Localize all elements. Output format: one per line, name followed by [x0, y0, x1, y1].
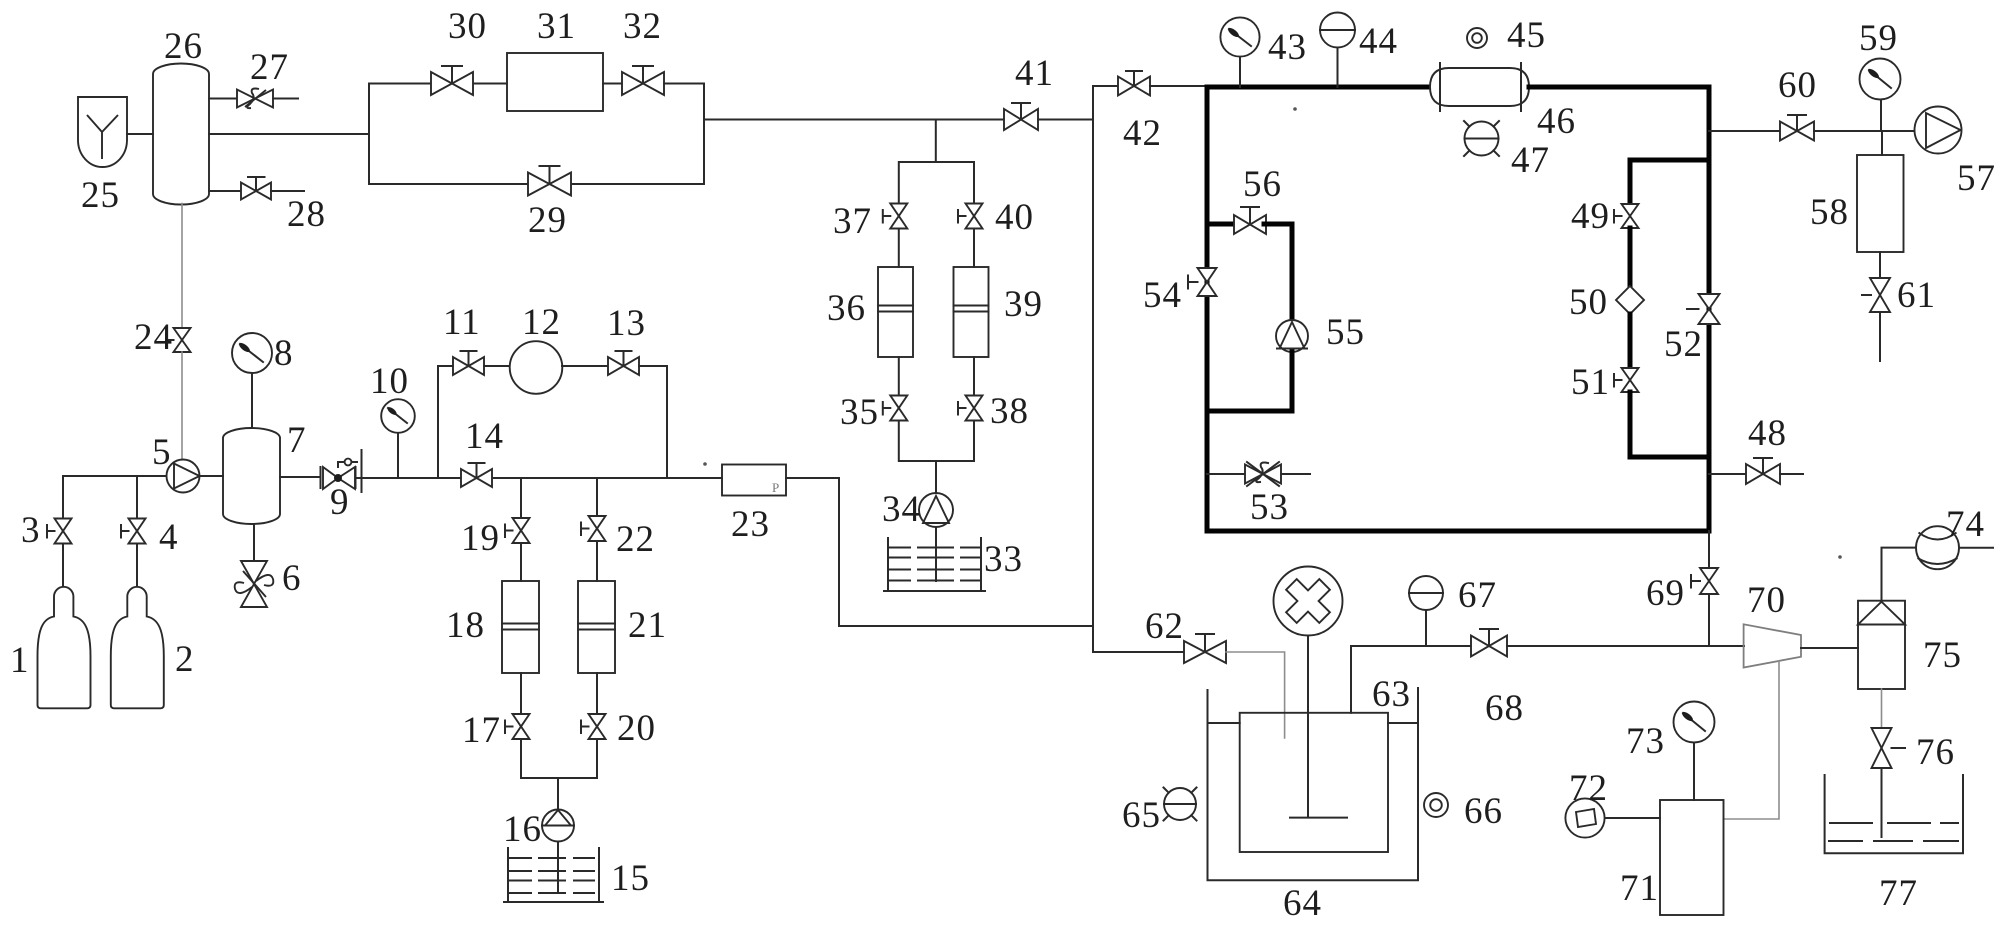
wire top run to valve 41	[704, 119, 1005, 121]
svg-text:74: 74	[1946, 504, 1985, 545]
wire 31 to valve 32	[603, 83, 622, 85]
wire 75 to meter 74	[1882, 548, 1918, 601]
valve 68	[1471, 629, 1744, 657]
thick loop left riser	[1205, 87, 1210, 531]
pressure gauge 8	[232, 333, 272, 373]
valve 51	[1614, 368, 1639, 392]
pressure gauge 73	[1674, 702, 1715, 743]
wire pump 34 into tank 33	[935, 527, 937, 581]
svg-text:52: 52	[1664, 324, 1703, 365]
wire 70 to separator 75	[1801, 647, 1858, 649]
svg-text:48: 48	[1748, 413, 1787, 454]
svg-text:46: 46	[1537, 101, 1576, 142]
valve 61	[1862, 278, 1890, 312]
svg-text:57: 57	[1957, 158, 1996, 199]
pressure gauge 10	[381, 399, 415, 433]
svg-text:2: 2	[175, 639, 195, 680]
svg-text:11: 11	[443, 302, 481, 343]
wire bypass left riser	[368, 84, 370, 185]
svg-text:70: 70	[1747, 580, 1786, 621]
wire valve 69 to line 68-70	[1708, 594, 1710, 646]
sensor 47	[1464, 121, 1499, 156]
svg-text:37: 37	[833, 201, 872, 242]
wire 26 to valve 28	[209, 190, 241, 192]
wire bypass 11-13 right riser	[639, 366, 667, 478]
valve 38	[958, 396, 983, 421]
adsorber column 39	[954, 267, 989, 357]
gas cylinder 2	[111, 587, 164, 708]
wire riser to valve 62	[1093, 651, 1185, 653]
valve 37	[883, 204, 908, 229]
valve 6	[235, 561, 274, 607]
svg-text:21: 21	[628, 605, 667, 646]
valve 56	[1234, 207, 1266, 234]
adsorber column 18	[502, 581, 539, 673]
svg-text:27: 27	[250, 47, 289, 88]
thermometer 67	[1409, 576, 1443, 610]
filter 23	[722, 465, 786, 496]
separator 75	[1858, 601, 1905, 689]
wire bypass right riser	[664, 84, 704, 185]
svg-text:31: 31	[537, 6, 576, 47]
wire 75 to valve 76	[1881, 689, 1883, 728]
svg-text:16: 16	[503, 809, 542, 850]
svg-text:6: 6	[282, 558, 302, 599]
wire main run 9 to 23	[438, 477, 722, 479]
thick branch 49-51 left riser upper	[1628, 160, 1633, 204]
wire column 39 to valve 38	[973, 357, 975, 396]
valve 14	[461, 463, 492, 487]
svg-text:32: 32	[623, 6, 662, 47]
wire valve 20 to pump 16	[558, 739, 597, 778]
ball valve 9	[321, 450, 439, 492]
svg-text:56: 56	[1243, 164, 1282, 205]
sensor 66	[1424, 793, 1448, 817]
wire down to pump 16	[557, 778, 559, 810]
valve 24	[166, 328, 191, 352]
circulation pump 55	[1276, 320, 1308, 352]
waste tank 77	[1825, 775, 1963, 853]
svg-text:P: P	[772, 480, 779, 495]
svg-text:59: 59	[1859, 18, 1898, 59]
adsorber column 36	[878, 267, 913, 357]
thick loop bottom run	[1207, 529, 1709, 534]
stray dot	[1293, 107, 1297, 111]
svg-text:60: 60	[1778, 65, 1817, 106]
svg-text:61: 61	[1897, 275, 1936, 316]
wire 42 stub	[1093, 85, 1118, 87]
wire bypass top run	[369, 83, 507, 85]
svg-text:24: 24	[134, 317, 173, 358]
valve 53	[1245, 462, 1310, 486]
valve 32	[622, 66, 664, 95]
valve 54	[1188, 268, 1217, 296]
thick branch 49-51 bottom	[1630, 392, 1709, 457]
wire junction down to valve 22	[596, 478, 598, 516]
thick wire 50 to 51	[1628, 314, 1633, 368]
svg-text:43: 43	[1268, 27, 1307, 68]
svg-text:54: 54	[1143, 275, 1182, 316]
thick branch 56 to pump 55	[1264, 224, 1292, 321]
svg-text:15: 15	[611, 858, 650, 899]
wire pump 5 to vessel 7	[200, 475, 224, 477]
valve 22	[581, 516, 606, 541]
svg-text:71: 71	[1620, 868, 1659, 909]
wire 25-26	[127, 133, 153, 135]
svg-text:4: 4	[159, 517, 179, 558]
rotameter 12	[510, 341, 563, 394]
svg-text:8: 8	[274, 333, 294, 374]
sensor 72	[1565, 798, 1660, 837]
wire valve 17 to pump 16	[521, 739, 558, 778]
svg-text:66: 66	[1464, 791, 1503, 832]
wire pump 16 into tank 15	[557, 842, 559, 894]
vacuum pump 16	[542, 810, 574, 842]
valve 49	[1614, 204, 1639, 228]
wire column 21 to valve 20	[596, 673, 598, 714]
svg-text:64: 64	[1283, 883, 1322, 924]
vessel 7	[223, 428, 280, 524]
stray dot b	[1838, 555, 1842, 559]
valve 27	[237, 89, 298, 109]
svg-text:34: 34	[882, 489, 921, 530]
wire junction down to valve 19	[520, 478, 522, 518]
valve 3	[47, 519, 72, 544]
svg-text:72: 72	[1569, 768, 1608, 809]
svg-text:5: 5	[152, 432, 172, 473]
wire junction to valve 4	[136, 476, 138, 518]
wire gauge 43 stem	[1239, 57, 1241, 87]
valve 41	[1004, 103, 1093, 130]
wire left feed header	[63, 476, 167, 531]
wire 24 to pump 5	[181, 352, 183, 461]
svg-text:36: 36	[827, 288, 866, 329]
pressure gauge 43	[1220, 17, 1259, 56]
stirrer paddle	[1290, 817, 1347, 819]
svg-text:69: 69	[1646, 573, 1685, 614]
svg-text:45: 45	[1507, 15, 1546, 56]
wire vessel 7 to valve 6	[253, 524, 255, 562]
svg-text:38: 38	[990, 391, 1029, 432]
svg-text:55: 55	[1326, 312, 1365, 353]
thick wire 49 to 50	[1628, 228, 1633, 287]
wire valve 53 stub	[1207, 473, 1245, 475]
svg-text:7: 7	[287, 420, 307, 461]
valve 52	[1687, 294, 1720, 324]
water bath 64	[1208, 688, 1419, 880]
svg-text:40: 40	[995, 197, 1034, 238]
valve 76	[1872, 728, 1906, 768]
wire reactor line to valve 68	[1351, 645, 1471, 647]
svg-text:19: 19	[461, 518, 500, 559]
svg-text:30: 30	[448, 6, 487, 47]
valve 29	[528, 166, 571, 196]
heater box 31	[507, 53, 603, 111]
wire gauge 8 stem	[251, 373, 253, 428]
svg-text:51: 51	[1571, 362, 1610, 403]
waste tank 15	[504, 848, 603, 902]
valve 17	[505, 714, 530, 739]
sensor 65	[1164, 788, 1197, 821]
wire valve 4 to cylinder 2	[136, 544, 138, 587]
solvent tank 33	[884, 538, 985, 591]
thermometer 44	[1320, 13, 1355, 48]
svg-text:1: 1	[10, 640, 30, 681]
wire 26 to valve 27	[209, 98, 237, 100]
valve 28	[241, 177, 304, 200]
wire 23 to mid junction	[786, 478, 1093, 626]
wire vessel 7 to valve 9	[280, 476, 320, 478]
svg-text:77: 77	[1879, 873, 1918, 914]
wire bottom header to pump 34	[899, 421, 974, 494]
valve 20	[581, 714, 606, 739]
flow meter 74	[1916, 526, 1993, 569]
svg-text:33: 33	[984, 539, 1023, 580]
wire gauge 10 stem	[397, 431, 399, 478]
svg-text:39: 39	[1004, 284, 1043, 325]
wire valve 40 to column 39	[973, 229, 975, 268]
svg-text:22: 22	[616, 519, 655, 560]
svg-text:28: 28	[287, 194, 326, 235]
vacuum pump 57	[1915, 107, 1962, 154]
cold trap 58	[1857, 155, 1904, 252]
svg-text:47: 47	[1511, 140, 1550, 181]
svg-text:18: 18	[446, 605, 485, 646]
valve 35	[883, 396, 908, 421]
svg-text:9: 9	[330, 482, 350, 523]
svg-text:63: 63	[1372, 674, 1411, 715]
valve 19	[505, 518, 530, 543]
valve 60	[1780, 115, 1914, 141]
recovery cylinder 71	[1660, 800, 1724, 915]
wire 70 bottom to recovery 71	[1724, 661, 1780, 819]
valve 62	[1184, 634, 1226, 663]
compressor 70	[1744, 624, 1801, 667]
buffer vessel 26	[153, 64, 209, 205]
wire branch down to 37-40 header	[899, 120, 974, 204]
svg-text:73: 73	[1626, 721, 1665, 762]
pressure gauge 59	[1860, 59, 1901, 100]
valve 30	[431, 66, 473, 95]
svg-text:20: 20	[617, 708, 656, 749]
svg-text:29: 29	[528, 200, 567, 241]
wire gauge 59 stem	[1880, 100, 1882, 131]
svg-text:76: 76	[1916, 732, 1955, 773]
wire bypass bottom run	[369, 183, 704, 185]
svg-text:41: 41	[1015, 53, 1054, 94]
stirrer shaft	[1307, 636, 1309, 817]
valve 40	[958, 204, 983, 229]
svg-text:12: 12	[522, 302, 561, 343]
svg-text:75: 75	[1923, 635, 1962, 676]
gas cylinder 1	[38, 587, 91, 709]
thick branch pump 55 to loop	[1207, 352, 1292, 411]
wire valve 61 drain	[1879, 312, 1881, 361]
wire gauge 73 stem	[1693, 743, 1695, 800]
valve 13	[608, 351, 639, 375]
wire 59 junction to vessel 58	[1881, 131, 1883, 155]
wire gauge 67 stem	[1425, 610, 1427, 646]
wire 12 to valve 13	[562, 365, 608, 367]
valve 48	[1746, 458, 1803, 484]
valve 4	[121, 519, 146, 544]
svg-text:65: 65	[1122, 795, 1161, 836]
pump 5	[167, 460, 200, 493]
wire valve 3 to cylinder 1	[62, 544, 64, 587]
thick branch 49-51 top run	[1630, 158, 1709, 163]
svg-text:35: 35	[840, 392, 879, 433]
wire valve 62 dip tube	[1226, 652, 1285, 738]
wire column 18 to valve 17	[520, 673, 522, 714]
adsorber column 21	[578, 581, 615, 673]
svg-text:50: 50	[1569, 282, 1608, 323]
svg-text:62: 62	[1145, 606, 1184, 647]
svg-text:10: 10	[370, 361, 409, 402]
wire loop to valve 60	[1709, 130, 1780, 132]
svg-text:13: 13	[607, 303, 646, 344]
svg-text:23: 23	[731, 504, 770, 545]
wire column 36 to valve 35	[898, 357, 900, 396]
condenser 46	[1430, 63, 1529, 111]
wire riser x1093	[1092, 86, 1094, 652]
wire loop down through valve 69	[1708, 531, 1710, 568]
reactor vessel 63	[1240, 713, 1388, 852]
valve 11	[453, 351, 511, 375]
thick loop 46 to top-right corner	[1529, 85, 1709, 90]
svg-text:26: 26	[164, 26, 203, 67]
sight glass 50	[1616, 286, 1644, 314]
wire loop to valve 48	[1709, 473, 1746, 475]
svg-text:42: 42	[1123, 113, 1162, 154]
wire valve 22 to column 21	[596, 541, 598, 581]
svg-text:3: 3	[21, 510, 41, 551]
thick loop top-left run	[1207, 85, 1430, 90]
svg-text:67: 67	[1458, 575, 1497, 616]
stirrer motor 63	[1274, 567, 1343, 636]
sensor 45	[1467, 28, 1487, 48]
stray dot c	[703, 462, 707, 466]
wire 26 to bypass	[209, 133, 369, 135]
wire 26 down to valve 24	[181, 204, 183, 329]
agitator feed device 25	[78, 97, 127, 167]
wire bypass 11-13 left riser	[438, 366, 453, 478]
valve 42	[1118, 71, 1207, 96]
svg-text:44: 44	[1359, 21, 1398, 62]
svg-text:25: 25	[81, 175, 120, 216]
wire valve 76 into tank 77	[1881, 768, 1883, 837]
svg-text:68: 68	[1485, 688, 1524, 729]
wire meter 44 stem	[1337, 47, 1339, 87]
wire valve 37 to column 36	[898, 229, 900, 268]
svg-text:53: 53	[1250, 487, 1289, 528]
svg-text:17: 17	[462, 710, 501, 751]
svg-text:49: 49	[1571, 196, 1610, 237]
svg-text:14: 14	[465, 416, 504, 457]
thick branch 56 left stub	[1207, 222, 1236, 227]
svg-text:58: 58	[1810, 192, 1849, 233]
circulation pump 34	[919, 493, 953, 527]
wire reactor outlet riser	[1350, 646, 1352, 713]
wire 58 to valve 61	[1879, 252, 1881, 278]
wire valve 19 to column 18	[520, 543, 522, 581]
valve 69	[1691, 568, 1718, 594]
thick loop right riser	[1707, 87, 1712, 531]
